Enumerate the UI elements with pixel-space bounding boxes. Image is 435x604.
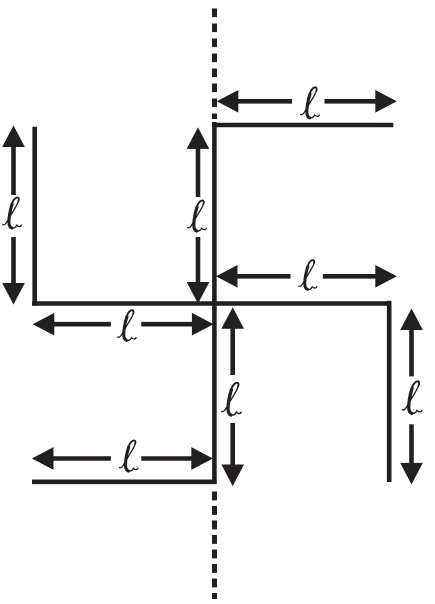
dimension arrow F (center vertical, lower) xyxy=(222,308,243,485)
rod: middle horizontal segment xyxy=(32,301,392,306)
rod: right vertical segment xyxy=(387,301,392,482)
label ell B xyxy=(188,200,207,231)
dimension arrow E (left-middle horizontal) xyxy=(34,314,213,335)
label ell H xyxy=(119,440,138,471)
label ell G xyxy=(402,381,422,413)
dimension arrow A (left vertical) xyxy=(3,127,24,304)
rod: bottom horizontal segment xyxy=(32,479,217,484)
dimension arrow D (middle-right horizontal) xyxy=(217,266,396,287)
label ell C xyxy=(301,87,320,118)
dimension arrow B (center vertical, upper) xyxy=(188,128,209,302)
label ell D xyxy=(299,260,317,289)
dimension arrow C (top horizontal) xyxy=(218,91,396,112)
label ell A xyxy=(3,197,22,228)
rod: top horizontal segment xyxy=(212,123,393,128)
label ell F xyxy=(222,383,242,416)
label ell E xyxy=(118,310,136,340)
dashed rotation axis (bottom) xyxy=(212,492,217,600)
dimension arrow G (right vertical) xyxy=(401,310,422,484)
dashed rotation axis (top) xyxy=(212,9,217,120)
dimension arrow H (bottom horizontal) xyxy=(33,448,212,469)
rod: left vertical segment xyxy=(32,127,37,306)
rod: center vertical segment xyxy=(212,122,217,484)
